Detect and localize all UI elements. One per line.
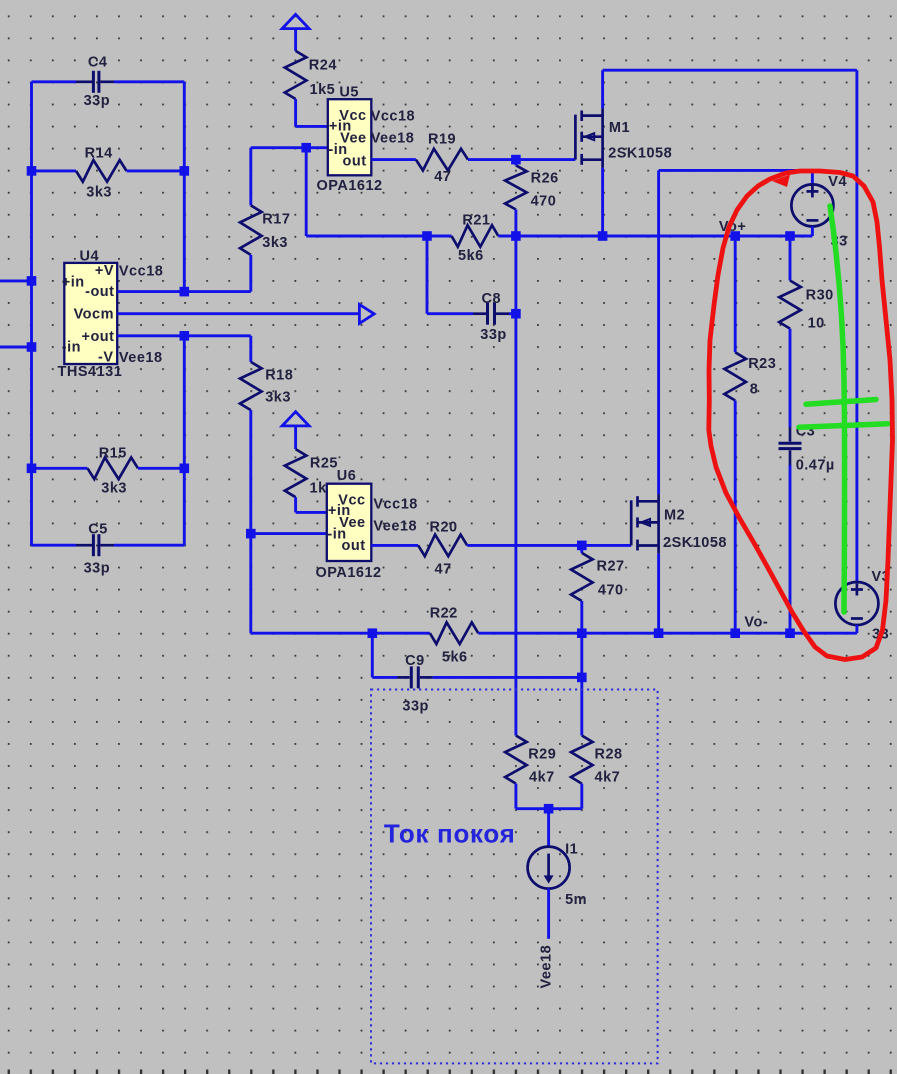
junction xyxy=(511,155,521,165)
svg-text:R22: R22 xyxy=(430,605,458,621)
junction xyxy=(27,342,37,352)
svg-text:R17: R17 xyxy=(262,212,290,228)
svg-text:3k3: 3k3 xyxy=(101,481,127,497)
capacitor C4 xyxy=(32,80,77,83)
resistor R27 xyxy=(580,545,583,553)
junction xyxy=(301,143,311,153)
resistor R25 xyxy=(294,426,297,449)
svg-text:THS4131: THS4131 xyxy=(58,364,123,380)
svg-text:R25: R25 xyxy=(310,455,338,471)
resistor R29 xyxy=(505,736,527,784)
svg-text:5m: 5m xyxy=(565,892,587,908)
svg-text:R14: R14 xyxy=(85,146,113,162)
svg-text:R21: R21 xyxy=(462,212,490,228)
svg-text:R24: R24 xyxy=(309,58,337,74)
svg-text:Vocm: Vocm xyxy=(74,306,114,322)
resistor R24 xyxy=(294,29,297,51)
junction xyxy=(654,628,664,638)
wire xyxy=(251,632,430,635)
capacitor C3 xyxy=(789,427,792,442)
svg-text:4k7: 4k7 xyxy=(595,769,621,785)
wire xyxy=(30,82,33,545)
svg-text:5k6: 5k6 xyxy=(458,248,484,264)
capacitor C9 xyxy=(371,633,374,677)
junction xyxy=(180,166,190,176)
transistor M2 xyxy=(630,500,633,545)
annotation red arrowhead xyxy=(772,175,790,188)
wire xyxy=(251,532,327,535)
svg-text:out: out xyxy=(343,153,367,169)
svg-text:Vee18: Vee18 xyxy=(373,518,417,534)
svg-text:10: 10 xyxy=(808,315,825,331)
resistor R17 xyxy=(249,148,252,206)
svg-text:47: 47 xyxy=(434,169,451,185)
junction xyxy=(27,464,37,474)
wire xyxy=(0,346,32,349)
svg-text:R15: R15 xyxy=(99,446,127,462)
svg-text:Vee18: Vee18 xyxy=(119,350,163,366)
wire xyxy=(183,336,186,545)
power flag xyxy=(282,14,309,28)
svg-text:-out: -out xyxy=(85,284,114,300)
op-amp U4 xyxy=(64,263,117,364)
svg-text:+in: +in xyxy=(62,274,85,290)
junction xyxy=(577,541,587,551)
svg-text:R28: R28 xyxy=(595,746,623,762)
resistor R15 xyxy=(32,467,88,470)
resistor R23 xyxy=(734,236,737,352)
resistor R20 xyxy=(371,544,418,547)
power flag xyxy=(282,412,309,426)
svg-text:4k7: 4k7 xyxy=(529,769,555,785)
svg-text:8: 8 xyxy=(750,381,759,397)
source V4 xyxy=(811,170,814,184)
wire xyxy=(601,168,604,236)
wire xyxy=(251,146,328,149)
resistor R21 xyxy=(452,225,499,247)
svg-text:R18: R18 xyxy=(265,367,293,383)
wire xyxy=(306,235,451,238)
svg-text:R29: R29 xyxy=(528,746,556,762)
svg-text:33p: 33p xyxy=(84,561,111,577)
junction xyxy=(27,276,37,286)
svg-text:M2: M2 xyxy=(664,508,685,524)
svg-text:3k3: 3k3 xyxy=(265,389,291,405)
wire xyxy=(117,312,359,315)
svg-text:R23: R23 xyxy=(748,356,776,372)
wire xyxy=(601,70,604,108)
svg-text:47: 47 xyxy=(435,561,452,577)
annotation red loop xyxy=(709,171,893,660)
svg-text:33p: 33p xyxy=(84,93,111,109)
svg-text:M1: M1 xyxy=(609,120,630,136)
svg-text:R20: R20 xyxy=(430,519,458,535)
svg-text:Vee18: Vee18 xyxy=(371,130,415,146)
resistor R30 xyxy=(789,236,792,281)
svg-text:C9: C9 xyxy=(405,653,425,669)
svg-text:33p: 33p xyxy=(402,698,429,714)
junction xyxy=(577,673,587,683)
svg-text:1k5: 1k5 xyxy=(310,82,336,98)
annotation green wire xyxy=(830,206,845,612)
svg-text:5k6: 5k6 xyxy=(442,649,468,665)
annotation green capacitor xyxy=(806,400,876,405)
annotation box xyxy=(371,690,658,1064)
svg-text:R30: R30 xyxy=(806,287,834,303)
wire xyxy=(0,279,32,282)
svg-text:Vcc18: Vcc18 xyxy=(371,108,415,124)
port arrow Vocm xyxy=(359,304,374,323)
svg-text:I1: I1 xyxy=(565,841,578,857)
svg-text:-V: -V xyxy=(98,349,114,365)
capacitor C8 xyxy=(426,236,429,314)
junction xyxy=(180,331,190,341)
wire xyxy=(659,169,813,172)
junction xyxy=(27,166,37,176)
svg-text:Vo-: Vo- xyxy=(744,615,768,631)
wire xyxy=(657,170,660,494)
wire xyxy=(305,148,308,236)
wire xyxy=(478,632,857,635)
resistor R19 xyxy=(371,158,416,161)
junction xyxy=(511,231,521,241)
svg-text:R26: R26 xyxy=(531,170,559,186)
svg-text:2SK1058: 2SK1058 xyxy=(663,535,727,551)
op-amp U6 xyxy=(327,484,372,561)
wire xyxy=(580,633,583,735)
resistor R14 xyxy=(32,169,77,172)
svg-text:Vcc18: Vcc18 xyxy=(119,264,163,280)
svg-text:2SK1058: 2SK1058 xyxy=(608,145,672,161)
svg-text:C5: C5 xyxy=(88,522,108,538)
capacitor C5 xyxy=(32,544,77,547)
wire xyxy=(855,70,858,582)
junction xyxy=(511,309,521,319)
junction xyxy=(730,231,740,241)
svg-text:0.47µ: 0.47µ xyxy=(796,457,835,473)
source V3 xyxy=(835,582,878,625)
svg-text:U5: U5 xyxy=(339,84,359,100)
op-amp U5 xyxy=(328,99,372,175)
wire xyxy=(117,334,251,337)
junction xyxy=(730,628,740,638)
svg-text:R27: R27 xyxy=(597,558,625,574)
svg-text:C8: C8 xyxy=(482,291,502,307)
svg-text:470: 470 xyxy=(531,193,557,209)
wire xyxy=(514,236,517,736)
junction xyxy=(422,231,432,241)
svg-text:C4: C4 xyxy=(88,55,108,71)
junction xyxy=(785,231,795,241)
junction xyxy=(246,529,256,539)
wire xyxy=(498,235,812,238)
svg-text:OPA1612: OPA1612 xyxy=(316,565,382,581)
wire xyxy=(603,69,857,72)
svg-text:3k3: 3k3 xyxy=(86,185,112,201)
junction xyxy=(577,628,587,638)
svg-text:-in: -in xyxy=(62,339,81,355)
junction xyxy=(598,231,608,241)
resistor R22 xyxy=(430,622,478,644)
svg-text:out: out xyxy=(342,538,366,554)
svg-text:Vee18: Vee18 xyxy=(539,945,555,989)
svg-text:OPA1612: OPA1612 xyxy=(317,178,383,194)
svg-text:Ток покоя: Ток покоя xyxy=(384,819,516,849)
junction xyxy=(368,628,378,638)
junction xyxy=(785,628,795,638)
resistor R28 xyxy=(571,736,593,784)
svg-text:V4: V4 xyxy=(828,174,847,190)
svg-text:+V: +V xyxy=(95,263,114,279)
svg-text:U6: U6 xyxy=(337,468,357,484)
svg-text:33p: 33p xyxy=(480,327,507,343)
resistor R18 xyxy=(249,336,252,362)
resistor R26 xyxy=(505,165,527,209)
wire xyxy=(657,554,660,634)
junction xyxy=(180,464,190,474)
source I1 xyxy=(547,809,550,847)
svg-text:+out: +out xyxy=(81,329,114,345)
transistor M1 xyxy=(574,115,577,160)
svg-text:3k3: 3k3 xyxy=(262,235,288,251)
wire xyxy=(249,534,252,634)
junction xyxy=(180,287,190,297)
junction xyxy=(544,804,554,814)
wire xyxy=(117,290,251,293)
wire xyxy=(183,82,186,292)
svg-text:Vcc18: Vcc18 xyxy=(373,496,417,512)
svg-text:470: 470 xyxy=(598,582,624,598)
svg-text:R19: R19 xyxy=(428,131,456,147)
